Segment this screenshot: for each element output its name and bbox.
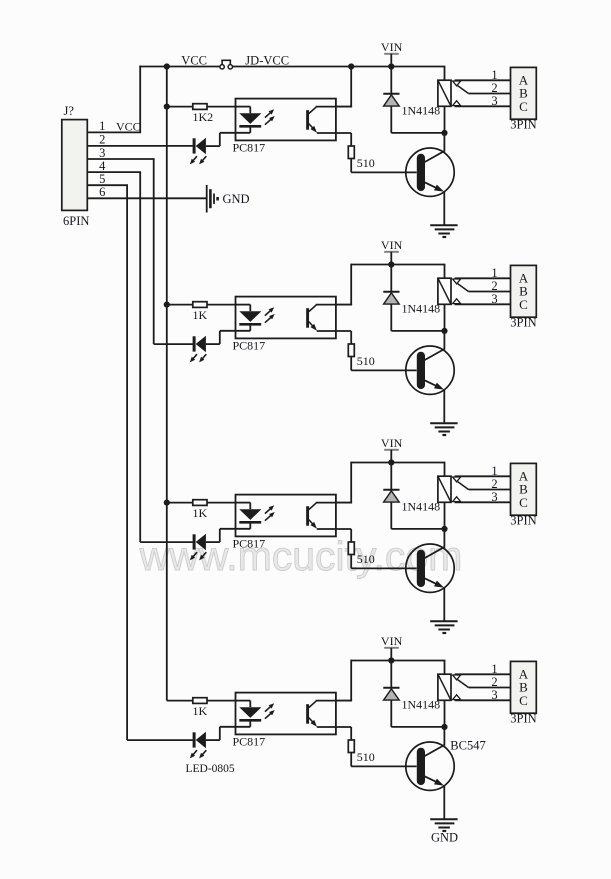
svg-text:PC817: PC817	[233, 140, 266, 154]
svg-text:1N4148: 1N4148	[402, 698, 441, 712]
svg-text:VCC: VCC	[116, 119, 141, 133]
svg-text:1: 1	[491, 266, 497, 280]
svg-text:LED-0805: LED-0805	[186, 763, 235, 775]
svg-text:2: 2	[491, 279, 497, 293]
svg-text:1K: 1K	[193, 308, 208, 322]
svg-text:1: 1	[99, 119, 105, 133]
svg-text:3: 3	[99, 146, 105, 160]
svg-text:1K: 1K	[193, 506, 208, 520]
svg-text:2: 2	[491, 477, 497, 491]
svg-text:1N4148: 1N4148	[402, 104, 441, 118]
svg-text:C: C	[519, 99, 528, 114]
svg-text:510: 510	[357, 156, 375, 170]
svg-text:3: 3	[491, 688, 497, 702]
svg-text:3PIN: 3PIN	[510, 711, 536, 725]
svg-text:1: 1	[491, 68, 497, 82]
svg-text:PC817: PC817	[233, 734, 266, 748]
svg-text:BC547: BC547	[450, 739, 485, 753]
svg-text:C: C	[519, 495, 528, 510]
svg-text:3: 3	[491, 94, 497, 108]
svg-text:2: 2	[491, 81, 497, 95]
svg-text:VCC: VCC	[181, 54, 207, 68]
svg-text:VIN: VIN	[381, 436, 403, 450]
svg-text:1K2: 1K2	[193, 110, 214, 124]
svg-text:1: 1	[491, 464, 497, 478]
svg-text:www.mcucity.com: www.mcucity.com	[139, 533, 463, 579]
svg-text:3PIN: 3PIN	[510, 117, 536, 131]
svg-text:1N4148: 1N4148	[402, 302, 441, 316]
svg-text:1N4148: 1N4148	[402, 500, 441, 514]
svg-text:J?: J?	[64, 104, 75, 118]
svg-text:4: 4	[99, 159, 106, 173]
svg-text:510: 510	[357, 552, 375, 566]
svg-text:2: 2	[491, 675, 497, 689]
svg-text:VIN: VIN	[381, 238, 403, 252]
svg-text:3: 3	[491, 490, 497, 504]
svg-text:3PIN: 3PIN	[510, 513, 536, 527]
svg-text:PC817: PC817	[233, 338, 266, 352]
svg-text:JD-VCC: JD-VCC	[245, 54, 289, 68]
svg-text:2: 2	[99, 133, 105, 147]
svg-text:PC817: PC817	[233, 536, 266, 550]
svg-text:1K: 1K	[193, 704, 208, 718]
svg-text:C: C	[519, 693, 528, 708]
svg-text:GND: GND	[223, 192, 250, 206]
svg-text:C: C	[519, 297, 528, 312]
svg-text:510: 510	[357, 750, 375, 764]
svg-text:3: 3	[491, 292, 497, 306]
svg-text:VIN: VIN	[381, 634, 403, 648]
svg-text:VIN: VIN	[381, 40, 403, 54]
svg-text:GND: GND	[431, 830, 458, 844]
svg-text:5: 5	[99, 172, 105, 186]
svg-text:510: 510	[357, 354, 375, 368]
svg-text:6PIN: 6PIN	[63, 214, 89, 228]
svg-text:1: 1	[491, 662, 497, 676]
svg-text:3PIN: 3PIN	[510, 315, 536, 329]
svg-text:6: 6	[99, 185, 105, 199]
